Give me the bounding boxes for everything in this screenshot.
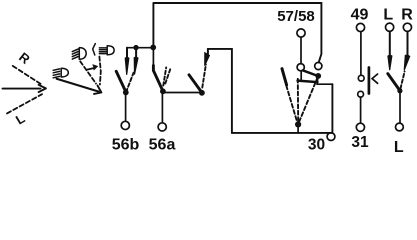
svg-text:56b: 56b: [112, 137, 140, 154]
contact1 pivot dot: [123, 90, 129, 96]
contact3 dashed blade: [202, 65, 206, 88]
svg-text:R: R: [401, 7, 413, 24]
contact2 dashed blade positions: [163, 67, 166, 85]
svg-text:30: 30: [308, 137, 325, 154]
wire: 57/58 down: [300, 37, 302, 63]
breaker actuator chevron: [372, 74, 378, 83]
breaker bridge bar: [368, 68, 371, 94]
wire: contact2 drop to 56a: [161, 91, 163, 123]
svg-text:R: R: [16, 49, 33, 67]
breaker upper contact circle: [358, 75, 364, 81]
dimmer selector solid arrow: [57, 79, 102, 94]
main switch lever cap (solid): [282, 69, 287, 85]
small chevron mark left of icon C: [93, 44, 96, 55]
wire: 49 down: [360, 32, 362, 76]
indicator dashed blade: [401, 72, 405, 89]
lamp icon C (top right, high beam): [99, 46, 114, 55]
wire: top bus left riser: [152, 3, 154, 47]
contact3 fixed finger with arrowhead: [205, 49, 210, 66]
main switch dashed ray to lever: [286, 86, 297, 123]
svg-text:L: L: [383, 7, 393, 24]
svg-text:L: L: [13, 111, 28, 128]
contact1 solid blade: [116, 71, 126, 92]
main switch bridge blade A: [303, 70, 318, 76]
turn lever neutral arrow: [3, 85, 46, 92]
main switch lower stroke B: [298, 81, 318, 83]
main switch junction dot: [315, 73, 321, 79]
terminal L (bottom) circle: [396, 123, 404, 131]
terminal 31 circle: [356, 123, 364, 131]
main switch left fixed circle: [297, 64, 304, 71]
main switch right fixed circle: [315, 62, 322, 69]
main switch pivot dot: [295, 121, 301, 127]
lamp icon B (top middle): [72, 48, 86, 60]
lamp icon A (left, low position): [53, 68, 68, 78]
contact1 left fixed finger: [125, 48, 129, 75]
indicator solid blade: [388, 74, 400, 91]
wire: jog from dot to riser: [317, 83, 332, 85]
main switch dashed ray to junction dot: [299, 77, 318, 123]
svg-text:31: 31: [351, 134, 369, 151]
dimmer selector dashed ray to icon B: [80, 61, 96, 83]
wire: pivot down to L out: [399, 91, 401, 123]
wire: down to 31: [360, 97, 362, 123]
turn lever dashed position L: [7, 94, 42, 113]
wire: riser from jog to bottom bus: [331, 84, 333, 133]
contact2 solid blade: [153, 66, 163, 92]
terminal 56a circle: [158, 123, 166, 131]
terminal 49 circle: [356, 23, 364, 31]
contact3 pivot dot: [199, 90, 205, 96]
terminal 30 circle: [327, 133, 335, 141]
terminal 56b circle: [121, 121, 129, 129]
wire: contact1 feed bus: [127, 47, 153, 49]
turn lever dashed position R: [13, 66, 42, 85]
svg-text:L: L: [394, 139, 404, 155]
wire: pivot stub to bottom bus: [297, 124, 299, 132]
contact1 dashed blade: [126, 73, 134, 93]
contact2 stem wire: [152, 47, 154, 66]
indicator contact R finger: [404, 32, 410, 71]
terminal 57/58 circle: [297, 29, 305, 37]
contact1 right fixed finger: [134, 48, 138, 75]
wire: dot to jog connector: [317, 76, 318, 84]
indicator contact L finger: [388, 31, 392, 70]
indicator pivot dot: [397, 88, 402, 93]
bottom bus wire: [232, 132, 333, 134]
terminal L circle: [386, 23, 394, 31]
svg-text:49: 49: [351, 7, 369, 24]
breaker lower contact circle: [358, 91, 364, 97]
wire: contact3 loop over to bottom bus: [208, 49, 232, 133]
contact3 solid blade: [189, 75, 202, 93]
main switch dashed ray to left circle: [297, 79, 299, 122]
svg-text:56a: 56a: [149, 137, 176, 154]
junction dot on contact1 bus: [133, 45, 138, 50]
terminal R circle: [403, 23, 411, 31]
wire: pivot2 to pivot3: [163, 92, 202, 94]
contact2 pivot dot: [160, 88, 166, 94]
wire: top bus right riser: [319, 3, 322, 62]
junction dot top bus / contact2: [150, 45, 156, 51]
small flash arrow (spring return): [87, 65, 98, 70]
top bus wire: [154, 2, 321, 4]
svg-text:57/58: 57/58: [277, 8, 315, 25]
dimmer selector dashed ray to icon C: [99, 57, 100, 85]
main switch left circle stem: [300, 71, 302, 81]
wire: contact1 drop to 56b: [125, 92, 127, 121]
